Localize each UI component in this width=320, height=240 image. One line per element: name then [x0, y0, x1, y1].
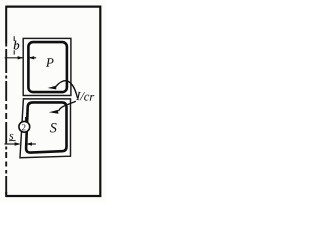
coil P (thick rounded rect) — [28, 42, 67, 92]
arrowhead upper — [48, 86, 57, 90]
arrowhead b right-pointing — [18, 56, 24, 59]
label I/cr — [76, 92, 94, 101]
dimension b line right — [29, 57, 36, 59]
label S — [50, 123, 57, 132]
centerline dash lower part — [13, 50, 15, 54]
curved arrow lower — [59, 101, 76, 111]
frame left edge dash-dot (axis) — [5, 43, 7, 194]
curved arrow upper — [56, 81, 78, 98]
frame left edge solid bottom stub — [5, 192, 7, 197]
balloon leader — [25, 117, 27, 122]
arrowhead b left-pointing — [29, 56, 35, 59]
balloon circle 2 — [19, 121, 30, 132]
arrowhead s right-pointing — [15, 142, 21, 145]
core outline S (thin rect, skewed) — [20, 99, 71, 158]
coil S (thick rounded rect, skewed) — [26, 102, 66, 152]
arrowhead s left-pointing — [26, 142, 32, 145]
arrowhead lower — [49, 110, 59, 114]
dimension s line left — [4, 143, 19, 145]
label P — [46, 58, 54, 67]
label s — [9, 134, 13, 140]
frame left edge solid top stub — [5, 6, 7, 43]
centerline (dash-dot) top — [13, 36, 15, 41]
core outline P (thin rect) — [23, 38, 71, 95]
outer frame — [6, 7, 100, 196]
dimension b line left — [5, 57, 23, 59]
dimension s line right — [27, 143, 36, 145]
s underline — [9, 140, 15, 142]
label b — [14, 41, 19, 50]
